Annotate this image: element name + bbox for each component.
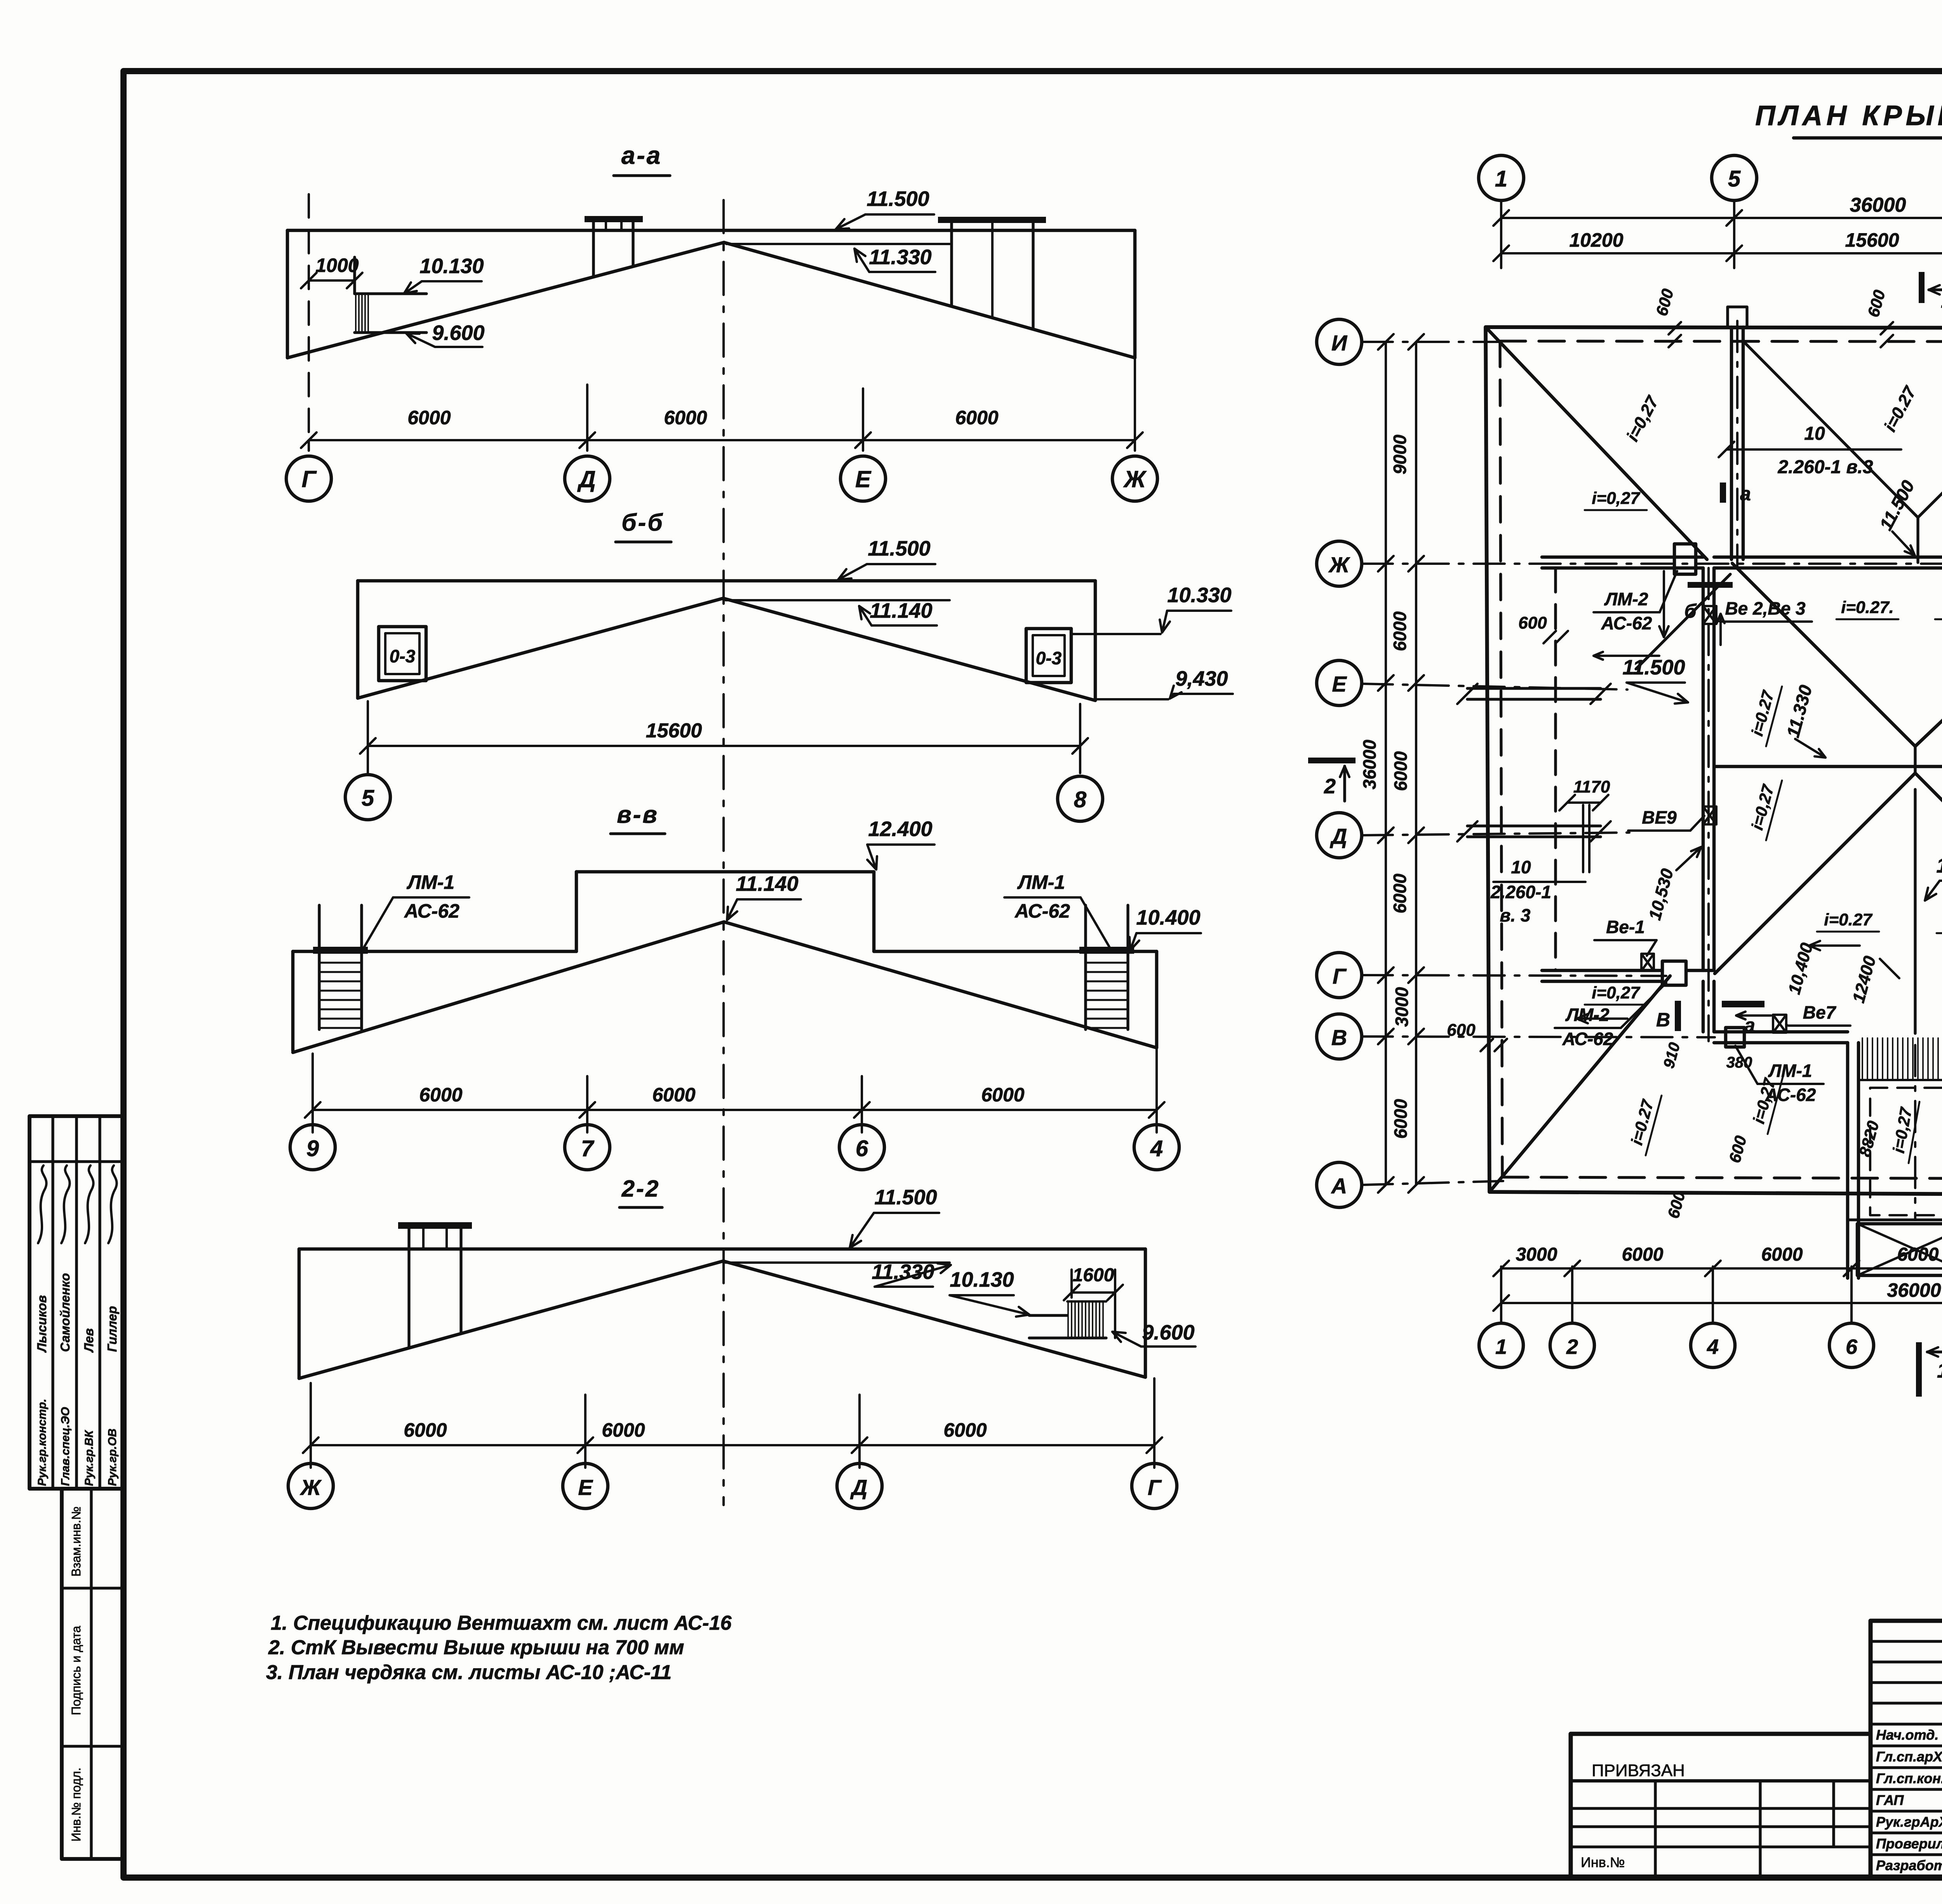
svg-text:3000: 3000 bbox=[1516, 1244, 1557, 1265]
svg-text:6000: 6000 bbox=[652, 1084, 695, 1106]
svg-text:10.330: 10.330 bbox=[1167, 584, 1231, 607]
svg-text:Ж: Ж bbox=[1123, 466, 1147, 492]
svg-text:5: 5 bbox=[362, 786, 374, 811]
svg-text:6000: 6000 bbox=[602, 1419, 645, 1441]
svg-text:ЛМ-2: ЛМ-2 bbox=[1565, 1005, 1610, 1025]
svg-text:6000: 6000 bbox=[1390, 611, 1410, 651]
svg-text:И: И bbox=[1331, 331, 1348, 355]
svg-text:ЛМ-2: ЛМ-2 bbox=[1604, 589, 1648, 609]
svg-text:в-в: в-в bbox=[617, 801, 659, 828]
svg-text:1170: 1170 bbox=[1573, 777, 1610, 796]
svg-text:Рук.гр.ВК: Рук.гр.ВК bbox=[83, 1429, 96, 1486]
svg-text:6000: 6000 bbox=[955, 407, 998, 429]
svg-text:2: 2 bbox=[1566, 1335, 1578, 1359]
svg-text:Инв.№ подл.: Инв.№ подл. bbox=[69, 1768, 83, 1841]
svg-text:9.600: 9.600 bbox=[432, 321, 484, 345]
svg-text:АС-62: АС-62 bbox=[1014, 900, 1070, 922]
svg-text:11.140: 11.140 bbox=[736, 872, 798, 895]
svg-text:11.140: 11.140 bbox=[870, 599, 932, 622]
svg-text:6000: 6000 bbox=[1622, 1244, 1664, 1265]
svg-text:11.140: 11.140 bbox=[1936, 854, 1942, 877]
svg-text:10.130: 10.130 bbox=[950, 1268, 1014, 1291]
svg-text:36000: 36000 bbox=[1359, 740, 1380, 789]
svg-text:12.400: 12.400 bbox=[868, 817, 932, 841]
svg-text:в. 3: в. 3 bbox=[1500, 905, 1531, 925]
svg-text:АС-62: АС-62 bbox=[1562, 1029, 1613, 1049]
svg-text:9.600: 9.600 bbox=[1142, 1321, 1194, 1344]
svg-text:15600: 15600 bbox=[1845, 229, 1899, 251]
svg-text:Глав.спец.ЭО: Глав.спец.ЭО bbox=[59, 1407, 72, 1486]
svg-text:Рук.гр.ОВ: Рук.гр.ОВ bbox=[106, 1428, 119, 1486]
svg-text:10.130: 10.130 bbox=[419, 254, 484, 278]
svg-text:6000: 6000 bbox=[404, 1419, 447, 1441]
svg-text:ПРИВЯЗАН: ПРИВЯЗАН bbox=[1592, 1761, 1685, 1780]
svg-text:Д: Д bbox=[850, 1475, 867, 1500]
svg-text:4: 4 bbox=[1707, 1335, 1719, 1359]
svg-text:Гиллер: Гиллер bbox=[105, 1306, 119, 1352]
svg-text:Взам.инв.№: Взам.инв.№ bbox=[69, 1507, 83, 1577]
svg-text:10: 10 bbox=[1511, 857, 1531, 877]
svg-text:ВЕ9: ВЕ9 bbox=[1642, 807, 1677, 827]
svg-text:600: 600 bbox=[1447, 1021, 1476, 1040]
svg-text:1: 1 bbox=[1495, 166, 1507, 192]
svg-text:i=0.27.: i=0.27. bbox=[1841, 598, 1894, 617]
svg-text:2.260-1: 2.260-1 bbox=[1490, 882, 1551, 902]
svg-text:i=0.27: i=0.27 bbox=[1824, 910, 1873, 929]
svg-text:Ве-1: Ве-1 bbox=[1606, 917, 1645, 937]
svg-text:1600: 1600 bbox=[1073, 1265, 1114, 1286]
svg-text:7: 7 bbox=[581, 1136, 595, 1161]
svg-text:5: 5 bbox=[1728, 166, 1741, 192]
svg-text:36000: 36000 bbox=[1887, 1279, 1941, 1301]
svg-text:Нач.отд.: Нач.отд. bbox=[1876, 1727, 1939, 1743]
svg-text:2.260-1 в.3: 2.260-1 в.3 bbox=[1777, 457, 1873, 477]
svg-text:9,430: 9,430 bbox=[1175, 667, 1228, 690]
svg-text:В: В bbox=[1656, 1009, 1670, 1031]
svg-text:Рук.грАрХ: Рук.грАрХ bbox=[1876, 1814, 1942, 1830]
svg-text:ЛМ-1: ЛМ-1 bbox=[407, 871, 454, 893]
svg-text:Гл.сп.кон.: Гл.сп.кон. bbox=[1876, 1770, 1942, 1786]
svg-text:Ж: Ж bbox=[1328, 552, 1350, 577]
svg-text:6000: 6000 bbox=[419, 1084, 462, 1106]
svg-text:Ве7: Ве7 bbox=[1803, 1002, 1837, 1023]
svg-text:11.330: 11.330 bbox=[869, 246, 931, 269]
svg-text:ЛМ-1: ЛМ-1 bbox=[1017, 871, 1065, 893]
svg-text:Е: Е bbox=[855, 466, 872, 492]
svg-text:В: В bbox=[1331, 1025, 1347, 1050]
svg-text:36000: 36000 bbox=[1850, 194, 1906, 216]
svg-text:1: 1 bbox=[1495, 1335, 1507, 1359]
svg-text:Проверил: Проверил bbox=[1876, 1836, 1942, 1852]
svg-text:10: 10 bbox=[1804, 423, 1825, 444]
svg-text:а: а bbox=[1744, 1014, 1755, 1036]
svg-text:Д: Д bbox=[577, 466, 595, 492]
svg-text:4: 4 bbox=[1150, 1136, 1163, 1161]
svg-text:Д: Д bbox=[1330, 824, 1347, 848]
svg-text:Г: Г bbox=[1333, 964, 1347, 988]
svg-text:Самойленко: Самойленко bbox=[58, 1273, 72, 1352]
svg-text:Инв.№: Инв.№ bbox=[1581, 1854, 1625, 1870]
svg-text:АС-62: АС-62 bbox=[404, 900, 459, 922]
svg-text:Г: Г bbox=[302, 466, 317, 492]
svg-text:ЛМ-1: ЛМ-1 bbox=[1768, 1061, 1812, 1081]
svg-text:6: 6 bbox=[1846, 1335, 1858, 1359]
svg-text:б-б: б-б bbox=[621, 509, 664, 536]
svg-text:6000: 6000 bbox=[1390, 751, 1411, 791]
svg-text:11.500: 11.500 bbox=[1622, 656, 1685, 679]
svg-text:а: а bbox=[1740, 483, 1751, 505]
svg-text:0-3: 0-3 bbox=[1036, 648, 1062, 668]
svg-text:15600: 15600 bbox=[646, 719, 702, 742]
svg-text:Ж: Ж bbox=[299, 1475, 322, 1500]
svg-text:2: 2 bbox=[1324, 775, 1336, 798]
svg-text:2. СтК Вывести Выше крыши: 2. СтК Вывести Выше крыши на 700 мм bbox=[268, 1636, 684, 1659]
svg-text:Лысиков: Лысиков bbox=[35, 1295, 49, 1353]
svg-text:6000: 6000 bbox=[981, 1084, 1024, 1106]
svg-text:10200: 10200 bbox=[1569, 229, 1623, 251]
svg-text:АС-62: АС-62 bbox=[1765, 1085, 1816, 1105]
svg-text:3000: 3000 bbox=[1392, 987, 1412, 1027]
svg-text:Гл.сп.арХ.: Гл.сп.арХ. bbox=[1876, 1749, 1942, 1765]
svg-text:6000: 6000 bbox=[664, 407, 707, 429]
svg-text:ГАП: ГАП bbox=[1876, 1792, 1904, 1808]
svg-text:а-а: а-а bbox=[621, 141, 662, 169]
svg-text:11.500: 11.500 bbox=[867, 187, 929, 211]
svg-text:2-2: 2-2 bbox=[621, 1176, 660, 1202]
svg-text:3. План чердяка см. листы: 3. План чердяка см. листы АС-10 ;АС-11 bbox=[266, 1661, 672, 1684]
svg-text:б: б bbox=[1684, 600, 1697, 622]
svg-text:9000: 9000 bbox=[1390, 434, 1410, 474]
svg-text:6000: 6000 bbox=[1761, 1244, 1803, 1265]
svg-text:6000: 6000 bbox=[943, 1419, 987, 1441]
svg-text:0-3: 0-3 bbox=[390, 646, 416, 666]
svg-text:Ве 2,Ве 3: Ве 2,Ве 3 bbox=[1725, 598, 1806, 618]
svg-text:1000: 1000 bbox=[315, 254, 358, 276]
svg-text:1. Спецификацию Вентшахт см: 1. Спецификацию Вентшахт см. лист АС-16 bbox=[271, 1612, 732, 1634]
svg-text:Разработ.: Разработ. bbox=[1876, 1857, 1942, 1873]
svg-text:Рук.гр.констр.: Рук.гр.констр. bbox=[36, 1399, 49, 1486]
svg-text:6000: 6000 bbox=[407, 407, 451, 429]
svg-text:Лев: Лев bbox=[82, 1328, 96, 1353]
svg-text:1: 1 bbox=[1937, 1359, 1942, 1382]
svg-text:6000: 6000 bbox=[1390, 1099, 1411, 1139]
svg-text:9: 9 bbox=[306, 1136, 319, 1161]
svg-text:Е: Е bbox=[1332, 672, 1347, 696]
svg-text:8: 8 bbox=[1074, 787, 1087, 812]
svg-text:Г: Г bbox=[1148, 1475, 1162, 1500]
svg-text:11.500: 11.500 bbox=[874, 1186, 937, 1209]
svg-text:i=0,27: i=0,27 bbox=[1592, 983, 1641, 1002]
svg-text:600: 600 bbox=[1518, 613, 1547, 632]
svg-text:Е: Е bbox=[578, 1475, 593, 1500]
svg-text:ПЛАН КРЫШИ: ПЛАН КРЫШИ bbox=[1755, 100, 1942, 131]
svg-text:11.500: 11.500 bbox=[868, 537, 930, 560]
svg-text:10.400: 10.400 bbox=[1136, 906, 1200, 929]
svg-text:6: 6 bbox=[856, 1136, 868, 1161]
svg-text:6000: 6000 bbox=[1390, 873, 1410, 913]
svg-text:АС-62: АС-62 bbox=[1601, 613, 1652, 633]
svg-text:Подпись и дата: Подпись и дата bbox=[69, 1626, 83, 1715]
svg-text:i=0,27: i=0,27 bbox=[1592, 489, 1641, 508]
svg-text:А: А bbox=[1331, 1174, 1347, 1198]
